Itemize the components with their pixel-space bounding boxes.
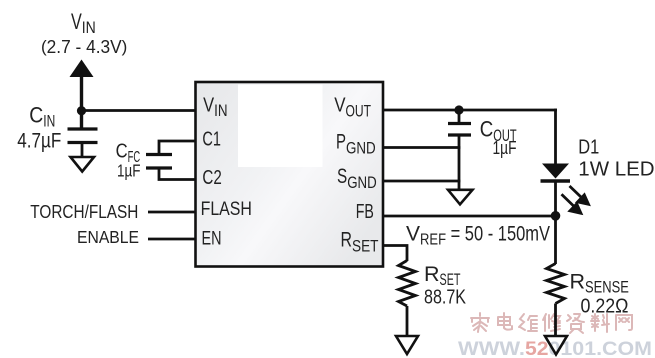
svg-text:4.7µF: 4.7µF <box>17 130 61 153</box>
wire C1 to CFC <box>159 141 197 154</box>
resistor RSET <box>399 261 416 307</box>
wire LED cathode to FB node <box>554 183 557 217</box>
wire SGND <box>382 180 460 183</box>
led D1 <box>542 164 569 179</box>
white patch inside IC <box>238 85 323 168</box>
ground RSET <box>396 336 418 354</box>
svg-text:C2: C2 <box>202 167 221 189</box>
watermark: chinese characters 家电维修资料网 <box>471 313 632 333</box>
node FB junction <box>551 211 561 221</box>
wire VIN to IC <box>82 109 198 112</box>
node VIN junction <box>77 106 86 115</box>
watermark: url www.520101.com <box>458 339 652 358</box>
ground RSENSE <box>545 336 567 355</box>
wire TORCH/FLASH to FLASH pin <box>148 211 197 214</box>
svg-text:1µF: 1µF <box>493 138 517 158</box>
led light arrow 1 <box>570 186 589 204</box>
wire RSET pin to resistor <box>382 246 407 262</box>
svg-text:WWW.: WWW. <box>458 339 525 358</box>
wire ENABLE to EN pin <box>148 238 197 241</box>
led D1 cathode bar <box>541 179 571 182</box>
wire VOUT to LED column <box>382 109 557 112</box>
svg-text:1µF: 1µF <box>117 161 141 181</box>
svg-text:ENABLE: ENABLE <box>77 227 139 247</box>
char 维 <box>519 314 537 331</box>
svg-text:0.22Ω: 0.22Ω <box>581 296 629 318</box>
char 资 <box>567 314 584 333</box>
ground CIN <box>71 157 95 172</box>
wire VIN stem <box>80 75 83 128</box>
svg-text:D1: D1 <box>578 137 599 159</box>
power flag VIN arrow <box>70 60 94 78</box>
led light arrow 2 <box>562 194 581 213</box>
wire VOUT junction to COUT <box>458 110 461 123</box>
resistor RSENSE <box>547 264 565 304</box>
wire PGND <box>382 146 460 149</box>
capacitor CFC <box>146 155 172 169</box>
svg-text:C1: C1 <box>202 128 221 150</box>
svg-text:EN: EN <box>202 228 222 250</box>
svg-text:1W LED: 1W LED <box>578 159 654 181</box>
char 料 <box>591 314 609 332</box>
wire RSENSE to ground <box>554 304 557 337</box>
svg-text:(2.7 - 4.3V): (2.7 - 4.3V) <box>41 37 127 57</box>
node VOUT junction <box>454 105 463 114</box>
char 家 <box>471 313 489 332</box>
svg-text:88.7K: 88.7K <box>424 287 467 309</box>
wire LED anode drop <box>554 109 557 164</box>
wire COUT to ground <box>458 135 461 190</box>
svg-text:FLASH: FLASH <box>201 198 252 220</box>
capacitor COUT <box>448 124 471 136</box>
svg-text:FB: FB <box>356 200 374 223</box>
wire RSET to ground <box>406 306 409 336</box>
wire FB <box>382 215 557 218</box>
ground COUT <box>448 190 473 205</box>
svg-text:TORCH/FLASH: TORCH/FLASH <box>30 202 138 222</box>
char 网 <box>616 315 632 330</box>
wire FB node to RSENSE <box>554 216 557 264</box>
wire CFC to C2 <box>159 168 197 180</box>
char 修 <box>543 314 560 331</box>
svg-text:52: 52 <box>525 339 549 358</box>
capacitor CIN <box>68 129 98 143</box>
wire CIN to ground <box>81 144 84 157</box>
char 电 <box>498 313 512 330</box>
